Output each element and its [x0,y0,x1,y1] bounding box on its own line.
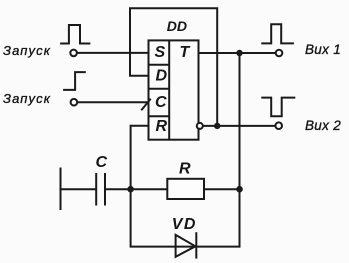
svg-text:R: R [179,160,191,177]
wire Вих1 node down to bottom node [239,53,241,189]
pulse symbol input 1 [60,25,90,44]
svg-text:Вих 2: Вих 2 [305,118,341,133]
svg-text:Вих 1: Вих 1 [305,42,341,57]
terminal Запуск 1 [70,50,77,57]
diode VD cathode bar [195,232,197,258]
resistor R1 body [167,179,204,199]
wire S input [77,52,149,54]
junction dot node B [236,186,243,193]
wire diode branch [131,189,240,246]
junction dot at feedback/output 2 [214,123,220,129]
junction dot at T output [236,50,242,56]
svg-text:C: C [155,94,167,111]
divider C/R [149,115,170,117]
svg-text:Запуск: Запуск [3,91,51,106]
diode VD triangle [176,235,196,257]
wire T output to Вих 1 [199,52,276,54]
svg-text:R: R [156,118,168,135]
svg-text:Запуск: Запуск [3,43,51,58]
svg-text:C: C [96,154,108,171]
svg-text:T: T [180,44,191,61]
wire R pin to bottom node [131,126,149,189]
junction dot node A [127,186,134,193]
svg-text:D: D [156,68,168,85]
input terminal bar (left rail) [60,168,62,211]
wire resistor to node B [204,188,240,190]
flip-flop DD box [149,40,199,139]
wire inverted output to Вих 2 [203,125,276,127]
inversion bubble on output 2 [197,123,203,129]
pulse symbol output 1 [261,24,294,43]
svg-text:VD: VD [172,216,197,233]
wire capacitor to node A [105,188,167,190]
capacitor C right plate [104,173,106,206]
svg-text:DD: DD [167,18,187,34]
divider D/C [149,88,170,90]
terminal Вих 2 [275,122,282,129]
step symbol input 2 [63,72,86,90]
terminal Запуск 2 [71,99,78,106]
svg-text:S: S [155,44,166,61]
wire D feedback path (D pin, up, across top, down to inverted output) [130,8,217,126]
dynamic input slash at C pin [141,99,150,110]
pulse symbol output 2 (inverted) [261,98,295,117]
flip-flop pin column divider [168,40,170,139]
divider S/D [149,64,170,66]
wire rail to capacitor [61,188,97,190]
terminal Вих 1 [276,50,283,57]
capacitor C left plate [95,173,97,206]
wire C input [77,101,148,103]
